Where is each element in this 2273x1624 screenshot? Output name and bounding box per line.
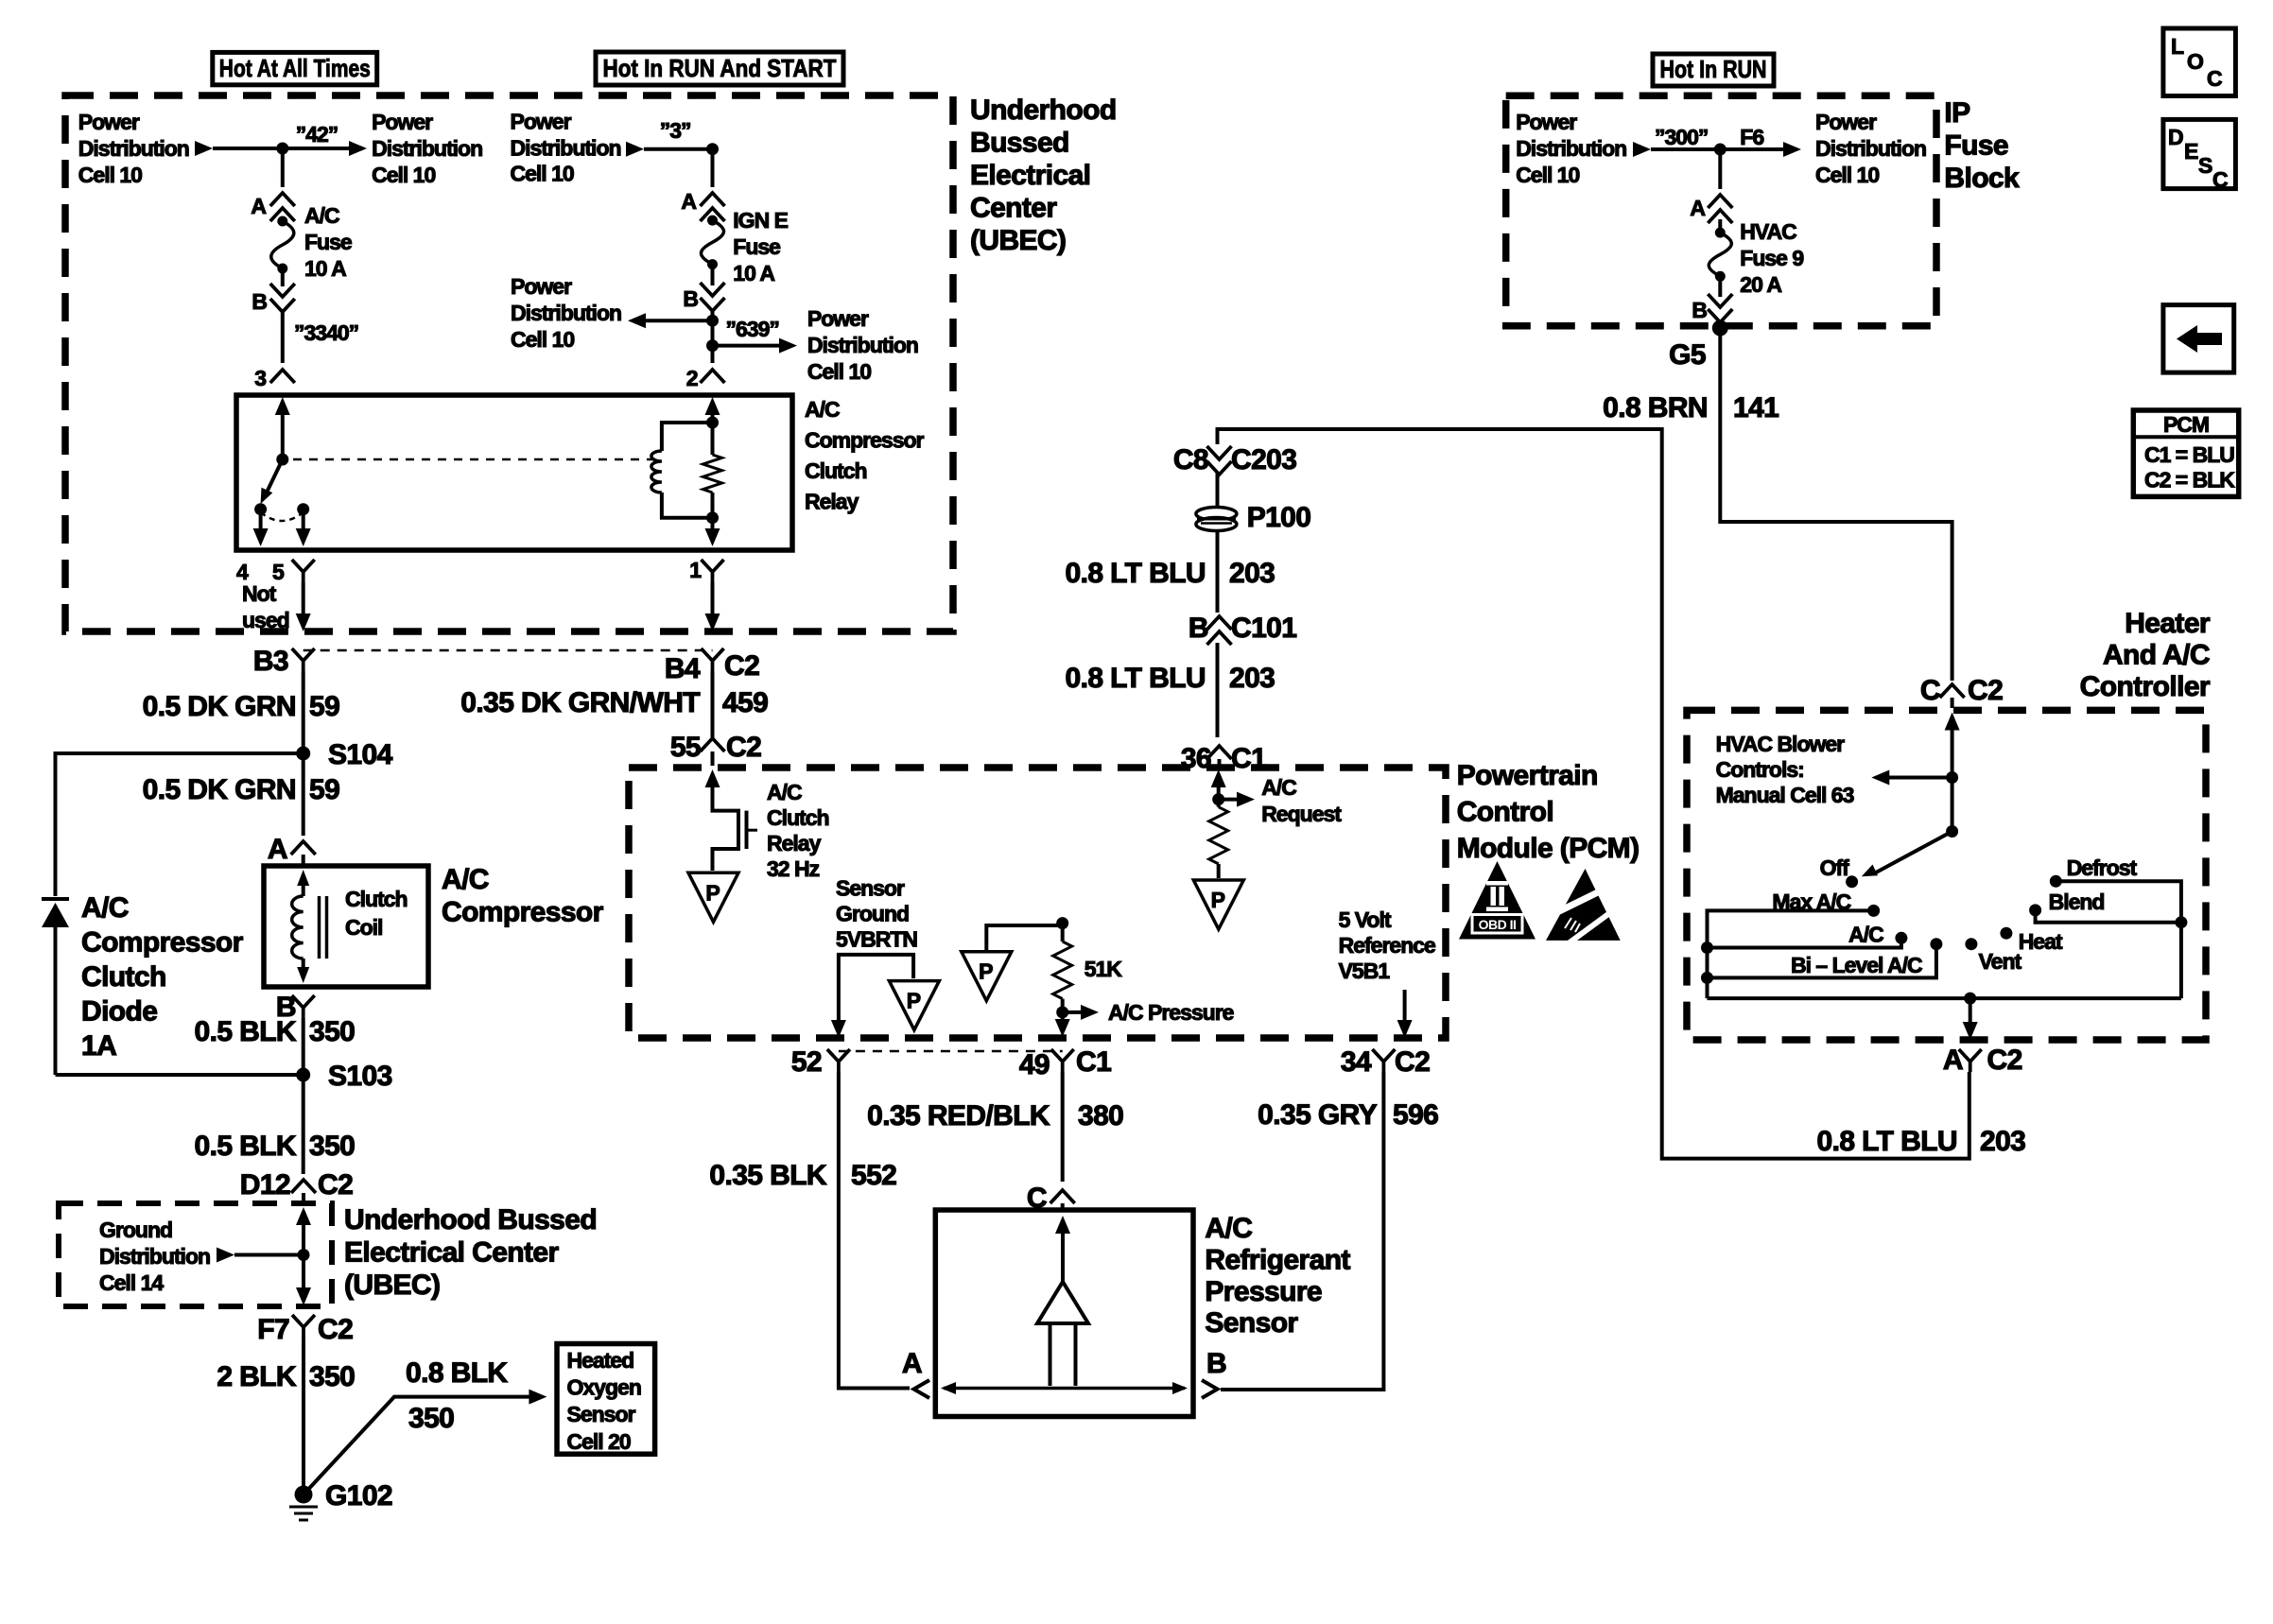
splice S103 xyxy=(296,1068,310,1082)
connector 52 xyxy=(827,1049,850,1072)
node A/C pressure tap xyxy=(1056,1006,1068,1018)
relay pin3 wire into box xyxy=(275,397,290,415)
svg-text:B: B xyxy=(1189,613,1208,644)
svg-text:Diode: Diode xyxy=(81,996,157,1028)
relay internal resistor xyxy=(703,455,722,492)
svg-text:2 BLK: 2 BLK xyxy=(217,1361,297,1392)
svg-text:Controls:: Controls: xyxy=(1716,757,1804,782)
wire F7 to G102 xyxy=(302,1338,305,1494)
wire G5 to heater controller xyxy=(1720,328,1952,681)
switch wiper arm xyxy=(1876,832,1952,873)
heater and A/C controller dashed box xyxy=(1687,710,2206,1040)
svg-text:F7: F7 xyxy=(257,1314,289,1345)
svg-text:0.8 BRN: 0.8 BRN xyxy=(1603,392,1708,423)
ground G102 xyxy=(295,1486,313,1504)
connector C C2 (heater controller) xyxy=(1940,684,1965,698)
arrow IP feed xyxy=(1633,142,1651,157)
arrow from Power Distribution xyxy=(195,141,213,156)
svg-text:P: P xyxy=(907,989,921,1013)
svg-text:C2 = BLK: C2 = BLK xyxy=(2144,468,2235,492)
switch position Defrost xyxy=(2050,875,2062,888)
connector 36 C1 xyxy=(1207,746,1232,759)
svg-text:350: 350 xyxy=(309,1016,355,1047)
compressor box xyxy=(264,866,428,987)
svg-text:S104: S104 xyxy=(328,739,393,770)
svg-text:C203: C203 xyxy=(1231,444,1296,475)
wire P100 to C101 xyxy=(1216,532,1220,613)
IP Fuse Block dashed box xyxy=(1506,95,1936,325)
svg-text:Clutch: Clutch xyxy=(805,458,867,483)
dashed connector line C2 between B3 and B4 xyxy=(304,649,713,652)
svg-text:203: 203 xyxy=(1229,663,1275,694)
svg-text:Ground: Ground xyxy=(99,1218,172,1242)
svg-text:A/C: A/C xyxy=(1261,775,1296,800)
svg-text:C2: C2 xyxy=(1395,1046,1430,1078)
svg-text:0.35 GRY: 0.35 GRY xyxy=(1258,1099,1377,1131)
pin 2 connector xyxy=(701,370,725,383)
connector B (HVAC fuse) xyxy=(1708,294,1732,307)
wire 42 to fuse A xyxy=(281,148,285,187)
svg-text:O: O xyxy=(2187,49,2203,74)
svg-text:”42”: ”42” xyxy=(296,122,338,147)
svg-text:D12: D12 xyxy=(240,1169,290,1201)
svg-text:203: 203 xyxy=(1229,558,1275,589)
ground P symbol (sensor ground) xyxy=(889,981,939,1030)
svg-text:F6: F6 xyxy=(1740,125,1763,149)
svg-text:C1: C1 xyxy=(1076,1046,1111,1078)
wire 3 to fuse A xyxy=(711,149,715,187)
svg-text:Relay: Relay xyxy=(767,831,822,855)
svg-text:C2: C2 xyxy=(318,1314,353,1345)
wire fuse B to relay pin 3 xyxy=(281,312,285,363)
svg-text:Cell 10: Cell 10 xyxy=(1516,163,1579,187)
svg-text:C: C xyxy=(2212,167,2228,192)
diode D1 A/C Compressor Clutch Diode xyxy=(42,897,69,901)
svg-text:HVAC Blower: HVAC Blower xyxy=(1716,732,1846,756)
svg-text:Manual Cell 63: Manual Cell 63 xyxy=(1716,783,1854,807)
wire to pin 49 xyxy=(1061,1012,1065,1025)
fuse F3 HVAC Fuse 9 20 A xyxy=(1715,228,1726,238)
svg-text:1A: 1A xyxy=(81,1030,116,1062)
ESD warning symbol xyxy=(1546,869,1621,941)
ground P symbol (51K pullup) xyxy=(962,952,1012,1001)
wire feed to node 42 xyxy=(213,147,351,150)
svg-text:Clutch: Clutch xyxy=(81,961,166,993)
OBD II symbol xyxy=(1459,861,1536,940)
svg-text:”300”: ”300” xyxy=(1655,125,1708,149)
switch position Max A/C xyxy=(1867,905,1880,917)
node 639 upper xyxy=(706,315,719,327)
arrow feed 3 xyxy=(626,142,644,157)
svg-text:59: 59 xyxy=(309,774,339,805)
relay K1 A/C Compressor Clutch Relay box xyxy=(236,395,792,550)
svg-text:B3: B3 xyxy=(253,646,288,677)
svg-text:10 A: 10 A xyxy=(733,261,774,285)
wire ground distribution to node xyxy=(234,1253,304,1257)
svg-text:Cell 10: Cell 10 xyxy=(1815,163,1879,187)
svg-text:Cell 14: Cell 14 xyxy=(99,1270,164,1295)
relay dashed link to coil xyxy=(293,458,656,461)
switch wiper pivot xyxy=(1946,825,1958,838)
A/C request input wire xyxy=(1211,769,1226,787)
svg-text:A/C: A/C xyxy=(767,780,802,804)
svg-text:596: 596 xyxy=(1393,1099,1438,1131)
svg-text:G5: G5 xyxy=(1669,339,1706,371)
wire Bi-Level to left rail xyxy=(1708,944,1936,978)
connector A C2 (heater controller) xyxy=(1959,1049,1982,1072)
svg-text:Distribution: Distribution xyxy=(372,136,482,161)
svg-text:36: 36 xyxy=(1181,743,1211,774)
svg-text:5 Volt: 5 Volt xyxy=(1339,907,1392,932)
svg-text:Off: Off xyxy=(1820,855,1850,880)
node junction 3 xyxy=(706,143,719,155)
arrow A/C Pressure xyxy=(1063,1011,1084,1014)
connector D12 C2 xyxy=(291,1180,316,1193)
svg-text:C2: C2 xyxy=(724,650,759,682)
connector B (A/C fuse) xyxy=(270,284,295,297)
svg-text:Power: Power xyxy=(511,110,572,134)
svg-text:350: 350 xyxy=(309,1361,355,1392)
svg-text:Cell 10: Cell 10 xyxy=(807,359,871,384)
svg-text:0.5 DK GRN: 0.5 DK GRN xyxy=(143,774,296,805)
pin 1 output connector xyxy=(702,560,724,582)
node 51K top xyxy=(1056,917,1068,929)
wire IP feed xyxy=(1651,147,1785,151)
switch position Off xyxy=(1846,875,1858,888)
resistor A/C request pulldown xyxy=(1209,807,1228,864)
wire Defrost to right rail xyxy=(2056,881,2181,998)
resistor R1 51K xyxy=(1061,924,1065,942)
wire bus to pin A xyxy=(1969,998,1972,1027)
svg-text:0.8 LT BLU: 0.8 LT BLU xyxy=(1817,1126,1957,1157)
relay switch pivot xyxy=(276,454,288,466)
svg-text:Fuse 9: Fuse 9 xyxy=(1740,246,1803,270)
svg-text:A/C: A/C xyxy=(442,864,489,895)
svg-text:Distribution: Distribution xyxy=(511,301,621,325)
svg-text:G102: G102 xyxy=(325,1480,392,1512)
svg-text:Refrigerant: Refrigerant xyxy=(1205,1244,1350,1275)
svg-text:C: C xyxy=(1920,675,1940,706)
wire 300 to HVAC fuse xyxy=(1718,149,1722,189)
wire C8 to P100 xyxy=(1216,473,1220,506)
svg-text:141: 141 xyxy=(1733,392,1778,423)
svg-text:Fuse: Fuse xyxy=(304,230,352,254)
relay pin 5 contact xyxy=(297,503,309,515)
svg-text:(UBEC): (UBEC) xyxy=(970,225,1066,256)
svg-text:Compressor: Compressor xyxy=(442,897,604,928)
svg-text:Ground: Ground xyxy=(836,902,909,926)
svg-text:Distribution: Distribution xyxy=(99,1244,210,1269)
svg-text:B4: B4 xyxy=(665,653,701,684)
svg-text:A: A xyxy=(681,189,696,214)
svg-text:Request: Request xyxy=(1261,802,1342,826)
svg-text:Cell 10: Cell 10 xyxy=(372,163,435,187)
relay coil branch wire xyxy=(662,423,713,518)
connector B C101 xyxy=(1207,616,1232,630)
DESC reference box xyxy=(2163,119,2236,188)
svg-text:1: 1 xyxy=(689,558,702,582)
wire A/C to left rail xyxy=(1708,938,1901,947)
pin B connector (sensor) xyxy=(1202,1380,1218,1398)
arrow to Power Distribution right xyxy=(349,141,367,156)
svg-text:A/C: A/C xyxy=(1848,923,1883,947)
svg-text:A: A xyxy=(268,834,287,865)
svg-text:459: 459 xyxy=(722,687,768,718)
svg-text:0.8 BLK: 0.8 BLK xyxy=(406,1357,508,1389)
wire pin5 to UBEC edge xyxy=(302,582,305,616)
connector B4 C2 xyxy=(702,648,724,671)
wire Blend to right rail xyxy=(2036,910,2181,923)
wire fuse B down to pin 2 xyxy=(711,311,715,363)
svg-text:Distribution: Distribution xyxy=(511,136,621,161)
svg-text:Clutch: Clutch xyxy=(767,805,829,830)
svg-text:0.35 BLK: 0.35 BLK xyxy=(709,1160,827,1191)
svg-text:B: B xyxy=(683,286,698,311)
svg-text:Distribution: Distribution xyxy=(78,136,189,161)
svg-text:Sensor: Sensor xyxy=(836,876,905,901)
svg-text:Power: Power xyxy=(511,274,572,299)
svg-text:32 Hz: 32 Hz xyxy=(767,856,820,881)
node blower controls tap xyxy=(1946,771,1958,784)
heated oxygen sensor reference box xyxy=(557,1344,655,1455)
svg-text:C2: C2 xyxy=(318,1169,353,1201)
relay pin 4 contact xyxy=(254,503,267,515)
svg-text:Pressure: Pressure xyxy=(1205,1276,1322,1307)
svg-text:Underhood: Underhood xyxy=(970,95,1117,126)
svg-text:203: 203 xyxy=(1980,1126,2025,1157)
wire C8 corner to heater controller feed xyxy=(1218,429,1969,1159)
svg-text:Fuse: Fuse xyxy=(1944,130,2008,162)
svg-text:Electrical: Electrical xyxy=(970,160,1090,191)
svg-text:0.35 RED/BLK: 0.35 RED/BLK xyxy=(867,1100,1050,1132)
svg-text:Underhood Bussed: Underhood Bussed xyxy=(344,1204,597,1235)
dashed arc between pins 4 and 5 xyxy=(261,512,304,521)
svg-text:0.35 DK GRN/WHT: 0.35 DK GRN/WHT xyxy=(460,687,700,718)
svg-text:C101: C101 xyxy=(1231,613,1296,644)
svg-text:34: 34 xyxy=(1341,1046,1372,1078)
svg-text:10 A: 10 A xyxy=(304,256,346,281)
svg-text:52: 52 xyxy=(791,1046,822,1078)
svg-text:Oxygen: Oxygen xyxy=(567,1375,641,1400)
PCM connector legend box xyxy=(2133,410,2238,496)
svg-text:A/C: A/C xyxy=(805,397,840,422)
connector A (A/C fuse) xyxy=(270,193,295,206)
switch position A/C xyxy=(1895,932,1907,944)
PCM box Powertrain Control Module xyxy=(629,768,1446,1038)
connector 34 C2 xyxy=(1372,1049,1395,1072)
svg-text:And A/C: And A/C xyxy=(2103,640,2210,671)
svg-text:Electrical Center: Electrical Center xyxy=(344,1237,560,1269)
switch position Bi-Level A/C xyxy=(1930,938,1942,950)
svg-text:Power: Power xyxy=(78,110,140,134)
svg-text:Relay: Relay xyxy=(805,490,859,514)
svg-text:2: 2 xyxy=(686,366,698,390)
svg-text:380: 380 xyxy=(1078,1100,1123,1132)
svg-text:Heated: Heated xyxy=(567,1348,634,1373)
5VBRTN wire xyxy=(839,955,913,1024)
wire 5V reference to pin 34 xyxy=(1403,990,1407,1025)
svg-text:Power: Power xyxy=(807,306,869,331)
node coil top xyxy=(706,417,719,429)
svg-text:Sensor: Sensor xyxy=(1205,1307,1298,1339)
svg-text:0.5 DK GRN: 0.5 DK GRN xyxy=(143,691,296,722)
wire 639 to right xyxy=(713,344,782,348)
wire B3 to S104 xyxy=(302,671,305,747)
svg-text:used: used xyxy=(242,608,289,632)
svg-text:Sensor: Sensor xyxy=(567,1402,636,1426)
svg-text:S: S xyxy=(2198,153,2212,178)
svg-text:C8: C8 xyxy=(1173,444,1208,475)
connector B (IGN E fuse) xyxy=(701,283,725,296)
UBEC box (Underhood Bussed Electrical Center) xyxy=(65,95,953,631)
back arrow box xyxy=(2163,305,2234,373)
svg-text:”3”: ”3” xyxy=(660,118,691,143)
node output bus xyxy=(1964,993,1976,1005)
svg-text:IGN E: IGN E xyxy=(733,208,788,233)
connector A (HVAC fuse) xyxy=(1708,195,1732,208)
svg-text:P: P xyxy=(705,880,720,905)
pin 3 connector xyxy=(270,370,295,383)
svg-text:OBD II: OBD II xyxy=(1479,917,1517,932)
svg-text:Reference: Reference xyxy=(1339,933,1435,958)
pin A connector (sensor) xyxy=(914,1380,930,1398)
svg-text:Module (PCM): Module (PCM) xyxy=(1457,833,1640,864)
svg-text:V5B1: V5B1 xyxy=(1339,959,1391,983)
wire C101 to 36 xyxy=(1216,643,1220,737)
svg-text:Hot In RUN: Hot In RUN xyxy=(1660,55,1767,83)
svg-text:Hot At All Times: Hot At All Times xyxy=(219,54,371,82)
wire through UBEC lower xyxy=(296,1207,311,1225)
wire S103 to D12 xyxy=(302,1075,305,1174)
relay switch arm xyxy=(267,459,283,493)
svg-text:Coil: Coil xyxy=(345,915,382,940)
wire coil bottom to pin 1 xyxy=(711,518,715,533)
clutch coil symbol xyxy=(297,870,309,886)
svg-text:D: D xyxy=(2168,125,2183,149)
svg-text:350: 350 xyxy=(309,1131,355,1162)
svg-text:Cell 10: Cell 10 xyxy=(78,163,142,187)
svg-text:Powertrain: Powertrain xyxy=(1457,760,1598,791)
svg-text:A/C: A/C xyxy=(304,203,339,228)
connector C (sensor) xyxy=(1050,1190,1075,1203)
wire S104 to diode branch xyxy=(56,753,304,896)
wire to HVAC blower controls xyxy=(1887,776,1952,780)
svg-text:A: A xyxy=(1943,1045,1963,1076)
svg-text:Defrost: Defrost xyxy=(2067,855,2138,880)
header Hot In RUN And START xyxy=(596,52,843,85)
header Hot In RUN xyxy=(1653,54,1774,86)
svg-text:Clutch: Clutch xyxy=(345,887,408,911)
svg-text:C: C xyxy=(2207,66,2222,91)
svg-text:3: 3 xyxy=(254,366,266,390)
svg-text:A: A xyxy=(251,194,266,218)
wire Max A/C to left rail xyxy=(1708,910,1874,998)
relay coil xyxy=(651,451,662,492)
svg-text:Bussed: Bussed xyxy=(970,128,1069,159)
svg-text:0.8 LT BLU: 0.8 LT BLU xyxy=(1066,663,1206,694)
switch position Heat xyxy=(2000,927,2012,940)
node G5 xyxy=(1718,322,1722,328)
svg-text:20 A: 20 A xyxy=(1740,272,1781,297)
transistor Q1 A/C clutch relay driver xyxy=(705,769,720,787)
svg-text:”639”: ”639” xyxy=(726,317,779,341)
svg-text:P: P xyxy=(1211,888,1225,912)
node coil bottom xyxy=(706,511,719,524)
svg-text:59: 59 xyxy=(309,691,339,722)
wire 49 to sensor pin C xyxy=(1061,1072,1065,1182)
svg-text:Power: Power xyxy=(1815,110,1877,134)
svg-text:Hot In RUN And START: Hot In RUN And START xyxy=(603,54,837,82)
wire B4 to 55 xyxy=(711,671,715,737)
wire S104 to compressor A xyxy=(302,753,305,836)
sensor internal symbol xyxy=(1055,1216,1070,1234)
wire pin1 to UBEC edge xyxy=(711,582,715,616)
node junction 300 xyxy=(1714,144,1726,156)
svg-text:Distribution: Distribution xyxy=(1815,136,1926,161)
svg-text:Heat: Heat xyxy=(2019,929,2063,954)
wire 52 to sensor pin A xyxy=(839,1072,910,1389)
svg-text:A: A xyxy=(1690,196,1705,220)
svg-text:PCM: PCM xyxy=(2163,412,2209,437)
arrow ground distribution xyxy=(217,1248,234,1263)
svg-text:0.8 LT BLU: 0.8 LT BLU xyxy=(1066,558,1206,589)
svg-text:Control: Control xyxy=(1457,797,1553,828)
connector 49 C1 xyxy=(1051,1049,1074,1072)
connector 55 C2 xyxy=(701,738,725,752)
svg-text:A/C: A/C xyxy=(1205,1213,1252,1244)
svg-text:C1 = BLU: C1 = BLU xyxy=(2144,442,2234,467)
svg-text:C1: C1 xyxy=(1231,743,1266,774)
svg-text:Cell 10: Cell 10 xyxy=(511,162,574,186)
wire feed to node 3 xyxy=(644,147,713,151)
dashed connector line between 52 and 49 xyxy=(839,1050,1063,1053)
connector A (IGN E fuse) xyxy=(701,193,725,206)
svg-text:Vent: Vent xyxy=(1979,949,2022,974)
connector C8 C203 xyxy=(1207,446,1232,459)
node junction 42 xyxy=(276,143,288,155)
svg-text:Distribution: Distribution xyxy=(807,333,918,357)
svg-text:552: 552 xyxy=(851,1160,896,1191)
UBEC lower box xyxy=(59,1203,332,1306)
wire diode to S103 xyxy=(56,1073,304,1077)
pin 5 output connector xyxy=(292,560,315,582)
svg-text:5VBRTN: 5VBRTN xyxy=(836,927,917,952)
svg-text:”3340”: ”3340” xyxy=(294,320,358,345)
wire P to 51K xyxy=(986,925,1062,952)
wire B to S103 xyxy=(302,1018,305,1068)
connector F7 C2 xyxy=(292,1315,315,1338)
splice S104 xyxy=(296,747,310,761)
svg-text:0.5 BLK: 0.5 BLK xyxy=(195,1131,297,1162)
svg-text:Cell 20: Cell 20 xyxy=(567,1429,631,1454)
svg-text:Block: Block xyxy=(1944,163,2020,194)
svg-text:C2: C2 xyxy=(1968,675,2003,706)
svg-text:Blend: Blend xyxy=(2049,890,2105,914)
svg-text:Controller: Controller xyxy=(2080,671,2211,702)
svg-text:0.5 BLK: 0.5 BLK xyxy=(195,1016,297,1047)
A/C refrigerant pressure sensor box xyxy=(935,1210,1193,1417)
node 639 lower xyxy=(706,339,719,352)
svg-text:Power: Power xyxy=(372,110,433,134)
svg-text:Cell 10: Cell 10 xyxy=(511,327,574,352)
svg-text:Not: Not xyxy=(242,581,277,606)
fuse F1 A/C Fuse 10 A xyxy=(277,216,287,227)
svg-text:P: P xyxy=(979,959,993,984)
svg-text:P100: P100 xyxy=(1247,502,1311,533)
svg-text:55: 55 xyxy=(670,732,701,763)
ground P symbol (clutch driver) xyxy=(688,872,738,922)
pin A connector (compressor) xyxy=(291,841,316,855)
